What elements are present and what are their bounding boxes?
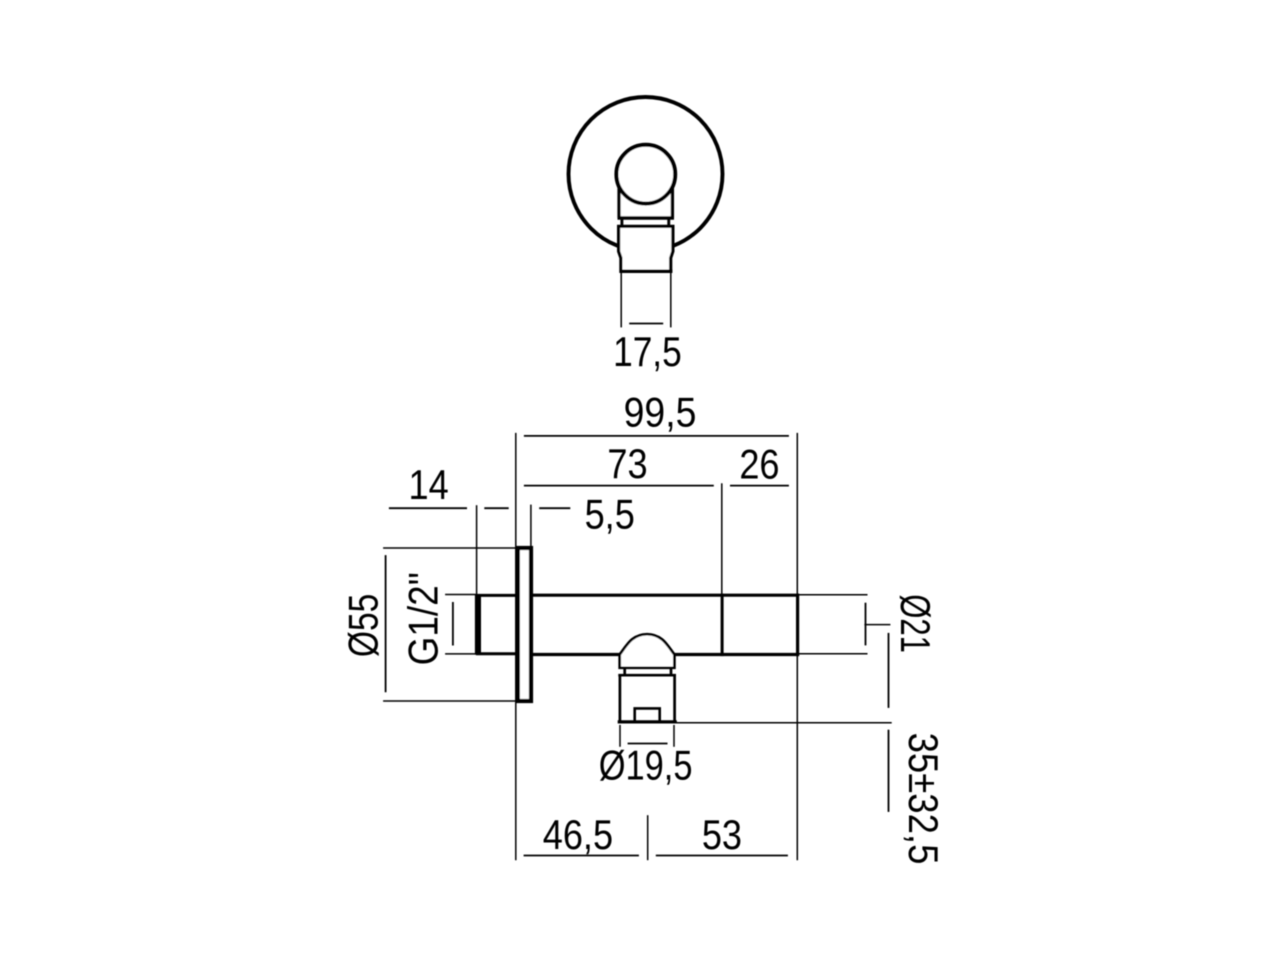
ext line 73/26 boundary x721.8 [721,483,723,594]
svg-text:Ø21: Ø21 [892,594,939,653]
dim line 14 inner dash [484,507,508,509]
groove ring right (front view) [667,220,670,227]
arm right end edge (side view) [796,594,799,656]
holder groove right (side view) [670,668,673,675]
dim line diameter 19,5 [628,743,668,745]
svg-text:53: 53 [702,813,742,859]
arm top edge (side view) [531,594,799,597]
ext line holder bottom y722.8 [677,722,892,724]
ext line plate front x530.9 [530,505,532,547]
holder body bottom edge (side view) [618,720,677,723]
svg-text:5,5: 5,5 [585,492,635,538]
dim line 73 [524,485,714,487]
holder dome and collar (side view) [620,634,675,668]
dim line 17,5 [629,323,663,325]
svg-text:35±32,5: 35±32,5 [899,733,946,865]
svg-text:17,5: 17,5 [613,329,682,376]
dim line G1/2 [452,602,454,646]
ext line plate top y548 [383,547,516,549]
ext line holder centre x647.7 [647,815,649,860]
svg-text:G1/2": G1/2" [400,572,447,665]
svg-text:14: 14 [409,463,449,509]
wall plate (side view) [518,548,531,701]
dim line 46,5 [524,855,639,857]
hose stub right line (front view) [670,273,672,327]
G1/2 connector bottom edge (side view) [476,652,532,655]
ball joint circle (front view) [616,145,675,204]
dim line diameter 21 [865,603,867,646]
ext line arm centreline y624.6 [864,624,890,626]
svg-text:Ø19,5: Ø19,5 [599,742,693,789]
ext line arm bottom right y653.8 [799,653,868,655]
holder body top edge (side view) [618,674,676,677]
ext line left wall face x515.8 [515,433,517,860]
svg-text:99,5: 99,5 [624,390,697,436]
dim line 14 left part [389,507,467,509]
dim line 99,5 [524,435,789,437]
holder upper block bottom edge (front view) [618,216,675,220]
dim line 35 tolerance upper [888,633,890,708]
ext line right end x797.3 [796,433,798,860]
svg-text:Ø55: Ø55 [341,594,387,657]
dim line 53 [656,855,788,857]
ext line holder right x674 [673,725,675,747]
svg-text:46,5: 46,5 [543,813,613,859]
G1/2 connector thread face bar (side view) [475,594,481,655]
dim line 26 [730,485,789,487]
holder body left side (side view) [619,675,622,722]
svg-text:26: 26 [739,442,779,488]
G1/2 connector top edge (side view) [476,594,532,597]
arm bottom edge (side view) [531,653,799,656]
holder inner detail rect (side view) [635,708,660,721]
groove ring left (front view) [620,220,623,227]
holder upper block right side (front view) [671,170,674,218]
dim line 5,5 dash [539,507,570,509]
hose stub left line (front view) [620,273,622,327]
ext line thread top y594.5 [445,594,476,596]
ext line plate bottom y701 [383,700,516,702]
dim line 35 tolerance lower [888,730,890,812]
holder upper block left side (front view) [617,170,620,218]
holder body right side (side view) [673,675,676,722]
holder lower block outline with chamfer (front view) [619,226,673,271]
svg-text:73: 73 [607,441,647,487]
escutcheon outer circle (front view) [569,97,723,251]
holder groove left (side view) [623,668,626,675]
holder lower block bottom edge (front view) [620,270,673,274]
ext line arm top right y594.8 [799,594,868,596]
dim line diameter 55 [385,555,387,692]
ext line thread face x476.6 [476,505,478,594]
ext line thread bottom y653.9 [445,653,476,655]
holder upper block fill (front view) [617,168,674,218]
ext line holder left x620 [619,725,621,747]
arm divider line 73/26 (side view) [721,594,724,656]
